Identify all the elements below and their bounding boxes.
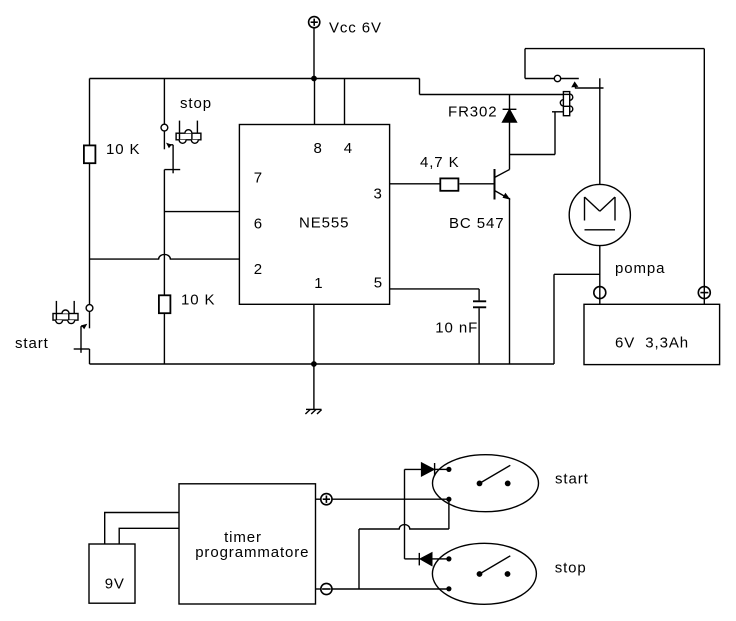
svg-text:Vcc 6V: Vcc 6V — [329, 20, 382, 37]
battery B1 6V box — [584, 304, 720, 364]
svg-text:stop: stop — [180, 95, 212, 112]
svg-text:9V: 9V — [105, 576, 125, 593]
diode D3 stop — [405, 553, 447, 566]
wire collector branch to coil — [510, 112, 564, 155]
svg-text:6V 3,3Ah: 6V 3,3Ah — [615, 335, 689, 352]
wire top rail — [90, 78, 420, 80]
wire left rail down — [89, 79, 91, 305]
diode D2 start — [405, 463, 447, 476]
power Vcc symbol — [309, 17, 320, 28]
wire start lower contact down with hop — [359, 499, 449, 589]
wire stop button down — [163, 170, 165, 295]
wire 9V to timer upper — [105, 513, 179, 545]
wire collector up — [509, 122, 511, 170]
wire minus terminal to stop contact — [332, 588, 449, 590]
svg-text:10 nF: 10 nF — [435, 320, 478, 337]
wire R3 to base — [460, 183, 494, 185]
battery terminal plus — [698, 287, 710, 299]
pushbutton stop — [161, 121, 201, 174]
wire plus terminal to start contact — [332, 498, 449, 500]
wire branch up to start diode — [404, 469, 406, 499]
wire R2 to bottom rail — [163, 313, 165, 364]
wire bottom rail — [90, 363, 555, 365]
svg-text:programmatore: programmatore — [195, 544, 309, 561]
transistor Q1 BC547 — [495, 169, 511, 200]
junction dot Vcc rail — [311, 76, 317, 82]
resistor R2 10K — [159, 295, 171, 313]
resistor R1 10K — [84, 145, 96, 163]
contact dot stop upper — [446, 556, 451, 561]
wire pin8 — [314, 79, 316, 125]
wire emitter down — [509, 198, 511, 364]
wire pin6 — [164, 211, 239, 213]
IC U1 NE555 box — [239, 125, 389, 305]
capacitor C1 10nF — [390, 289, 487, 364]
wire pin3 — [390, 183, 440, 185]
battery B2 9V box — [89, 544, 135, 603]
pushbutton start — [53, 301, 93, 353]
svg-text:7: 7 — [254, 170, 263, 187]
relay switch S1 — [525, 75, 604, 88]
wire start button to bottom rail — [89, 349, 91, 364]
svg-text:NE555: NE555 — [299, 215, 349, 232]
svg-text:stop: stop — [555, 560, 587, 577]
wire branch down to stop diode — [404, 499, 406, 559]
wire 9V to timer lower — [119, 528, 179, 544]
svg-text:4: 4 — [344, 140, 353, 157]
ground — [305, 364, 321, 414]
wire top rail step down — [419, 79, 421, 95]
svg-text:6: 6 — [254, 216, 263, 233]
wire motor down — [599, 246, 601, 305]
svg-text:2: 2 — [254, 261, 263, 278]
wire pin4 — [344, 79, 346, 125]
wire to relay coil — [420, 94, 564, 96]
wire Vcc down to top rail — [313, 28, 315, 79]
relay coil K1 — [560, 92, 573, 116]
svg-text:start: start — [15, 335, 49, 352]
timer box — [179, 484, 316, 604]
svg-text:1: 1 — [314, 275, 323, 292]
svg-text:pompa: pompa — [615, 260, 665, 277]
svg-text:10 K: 10 K — [181, 291, 215, 308]
contact dot start upper — [446, 467, 451, 472]
svg-text:5: 5 — [374, 275, 383, 292]
svg-text:FR302: FR302 — [448, 104, 498, 121]
terminal minus timer — [316, 583, 333, 594]
wire pin2 with hop — [90, 254, 240, 259]
wire to motor — [599, 78, 601, 184]
switch ellipse start — [433, 455, 539, 512]
terminal plus timer — [316, 494, 333, 505]
svg-text:BC 547: BC 547 — [449, 215, 504, 232]
svg-text:10 K: 10 K — [106, 141, 140, 158]
contact dot start lower — [446, 497, 451, 502]
motor M pompa — [569, 184, 630, 245]
battery terminal minus — [594, 287, 606, 299]
wire pin1 — [313, 304, 315, 364]
wire stop branch upper — [163, 79, 165, 125]
resistor R3 4,7K — [440, 178, 458, 190]
diode D1 FR302 — [503, 95, 517, 123]
contact dot stop lower — [446, 586, 451, 591]
junction dot pin1 ground — [311, 361, 317, 367]
svg-text:3: 3 — [374, 186, 383, 203]
wire switch common up and over — [525, 49, 704, 305]
svg-text:start: start — [555, 470, 589, 487]
svg-text:8: 8 — [314, 140, 323, 157]
wire ground link up — [554, 274, 600, 364]
switch ellipse stop — [432, 543, 536, 604]
svg-text:4,7 K: 4,7 K — [420, 154, 460, 171]
